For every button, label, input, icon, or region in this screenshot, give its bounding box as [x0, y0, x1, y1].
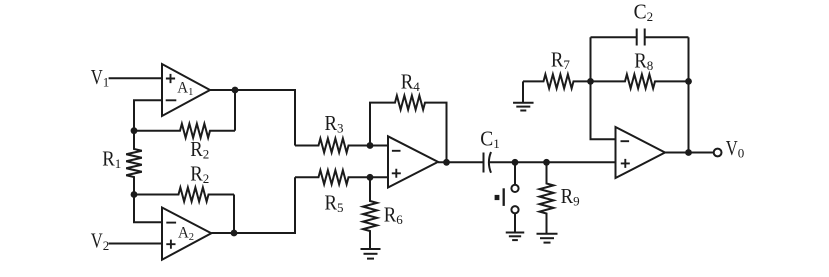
svg-text:C2: C2: [634, 0, 654, 24]
wire: R7 left end down to ground: [522, 81, 524, 102]
resistor R8 (feedback): [591, 49, 689, 89]
ground (R6): [361, 249, 381, 259]
push-button switch S1: [495, 185, 519, 214]
wire: right feedback vertical to output: [688, 37, 690, 152]
op-amp U4: [616, 127, 666, 178]
svg-text:V1: V1: [91, 65, 110, 90]
wire: node to A2 inverting input: [134, 195, 162, 223]
svg-text:R1: R1: [102, 146, 121, 171]
node: R1 top junction: [131, 127, 138, 134]
wire: A1 output down to R2 feedback: [234, 90, 236, 131]
op-amp A1: [162, 64, 210, 116]
node: A2 output junction: [231, 230, 238, 237]
node: R8/C2 right junction: [685, 78, 692, 85]
svg-text:R3: R3: [325, 111, 344, 136]
wire: R2 lower to A2 output: [233, 195, 235, 234]
svg-text:R9: R9: [561, 184, 580, 209]
capacitor C1: [480, 126, 500, 172]
node: A1 output junction: [232, 87, 239, 94]
svg-text:R6: R6: [384, 202, 404, 227]
svg-text:C1: C1: [480, 126, 500, 151]
node: U3 non-inverting input junction: [367, 174, 374, 181]
ground (R9): [537, 234, 558, 243]
svg-text:V2: V2: [91, 228, 110, 253]
resistor R9 to ground: [540, 162, 580, 234]
node: feedback junction on output: [685, 149, 692, 156]
wire: down to switch: [514, 162, 516, 184]
resistor R5: [295, 170, 388, 215]
op-amp A2: [162, 208, 211, 260]
capacitor C2: [591, 0, 689, 46]
node: R9 junction: [543, 159, 550, 166]
wire: V2 input lead: [109, 243, 162, 245]
node: R4 feedback junction on output: [443, 159, 450, 166]
wire: A1 inverting input to node: [134, 100, 162, 130]
wire: junction up to C2 and down to U4 inverting input: [591, 37, 616, 139]
terminal V0: [714, 136, 745, 161]
svg-text:V0: V0: [726, 136, 745, 161]
wire: switch to ground: [514, 213, 516, 232]
resistor R3: [295, 111, 388, 153]
resistor R6 to ground: [363, 177, 403, 249]
wire: A2 output: [211, 177, 295, 233]
resistor R2 (lower feedback): [134, 161, 234, 201]
svg-text:R8: R8: [634, 49, 653, 74]
node: R7/R8/C2 junction: [587, 78, 594, 85]
svg-text:R2: R2: [190, 137, 209, 162]
ground (R7): [513, 103, 534, 111]
resistor R7 from ground: [523, 47, 591, 88]
wire: V1 input lead: [109, 77, 162, 79]
resistor R2 (upper feedback): [134, 124, 235, 162]
node: U3 inverting input junction: [367, 142, 374, 149]
node: switch junction: [512, 159, 519, 166]
op-amp U3: [388, 136, 438, 187]
node: R1 bottom junction: [131, 191, 138, 198]
ground (switch): [506, 233, 525, 241]
resistor R4 (feedback loop): [370, 69, 447, 162]
svg-text:R2: R2: [190, 161, 209, 186]
svg-text:R7: R7: [551, 47, 571, 72]
wire: A1 output: [210, 90, 295, 146]
wire: C1 to U4 non-inverting input: [489, 161, 616, 163]
svg-text:R4: R4: [401, 69, 421, 94]
wire: U3 output rail: [438, 161, 484, 163]
svg-text:R5: R5: [325, 191, 344, 216]
wire: U4 output to V0 terminal: [665, 152, 714, 154]
resistor R1: [102, 131, 142, 195]
